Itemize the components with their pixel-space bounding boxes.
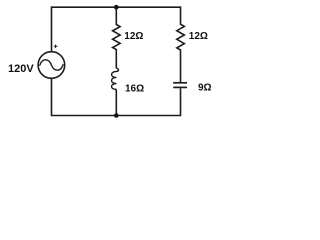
svg-text:9Ω: 9Ω bbox=[198, 83, 212, 94]
svg-text:120V: 120V bbox=[8, 63, 34, 75]
svg-text:12Ω: 12Ω bbox=[189, 31, 208, 42]
svg-text:16Ω: 16Ω bbox=[125, 84, 144, 95]
svg-text:12Ω: 12Ω bbox=[124, 31, 143, 42]
